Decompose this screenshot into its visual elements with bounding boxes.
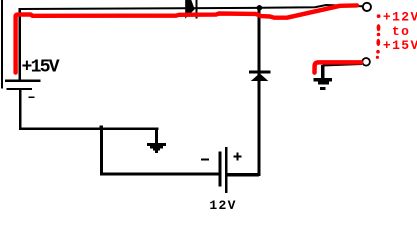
wire left vertical from top rail down to battery B1: [19, 8, 21, 80]
svg-text:+15V: +15V: [22, 57, 60, 77]
wire horizontal from B1 to ground G1: [19, 128, 158, 131]
diode D2 triangle pointing up: [251, 73, 268, 81]
wire from ground G2 to lower terminal: [323, 64, 363, 66]
ground G1 stub: [155, 130, 158, 144]
battery B1 negative plate: [7, 88, 33, 90]
wire right vertical from top junction down through diode D2: [258, 6, 261, 176]
battery B2 positive plate (long thin): [225, 147, 228, 193]
red dotted connector line: [377, 14, 381, 18]
svg-text:+12V: +12V: [383, 10, 417, 25]
red highlight wire at lower terminal to ground: [315, 62, 362, 72]
battery B1 positive plate: [5, 80, 41, 83]
wire vertical drop from junction: [100, 128, 103, 175]
red highlight wire from B1 + along top rail to terminal: [16, 5, 357, 72]
wire left-edge (cropped wire at image left border): [1, 0, 3, 89]
ground G2 stub: [321, 65, 324, 78]
diode D1 cathode bar: [195, 0, 197, 19]
svg-text:+15V: +15V: [383, 38, 417, 53]
ground G2 bars: [314, 78, 333, 81]
wire B2 positive lead to right vertical: [228, 173, 260, 176]
diode D2 cathode bar: [249, 71, 271, 74]
label B1 minus sign: [28, 96, 34, 98]
terminal circle top right: [363, 3, 371, 11]
svg-text:to: to: [392, 24, 410, 39]
label B2 plus sign: [234, 156, 242, 158]
battery B2 negative plate (short thick): [219, 152, 222, 187]
node junction dot on top rail: [257, 5, 263, 11]
ground G1 bars: [147, 143, 166, 146]
wire bottom horizontal to battery B2: [100, 172, 219, 175]
label B2 minus sign: [201, 158, 209, 160]
svg-text:12V: 12V: [209, 198, 236, 211]
node junction tick at x=101: [100, 125, 103, 128]
wire top rail from battery B1 + to output terminal: [20, 5, 362, 9]
diode D1 on top rail (triangle, cropped at top): [185, 0, 195, 19]
terminal circle lower right: [362, 58, 370, 66]
wire B1 negative lead down: [19, 90, 22, 129]
